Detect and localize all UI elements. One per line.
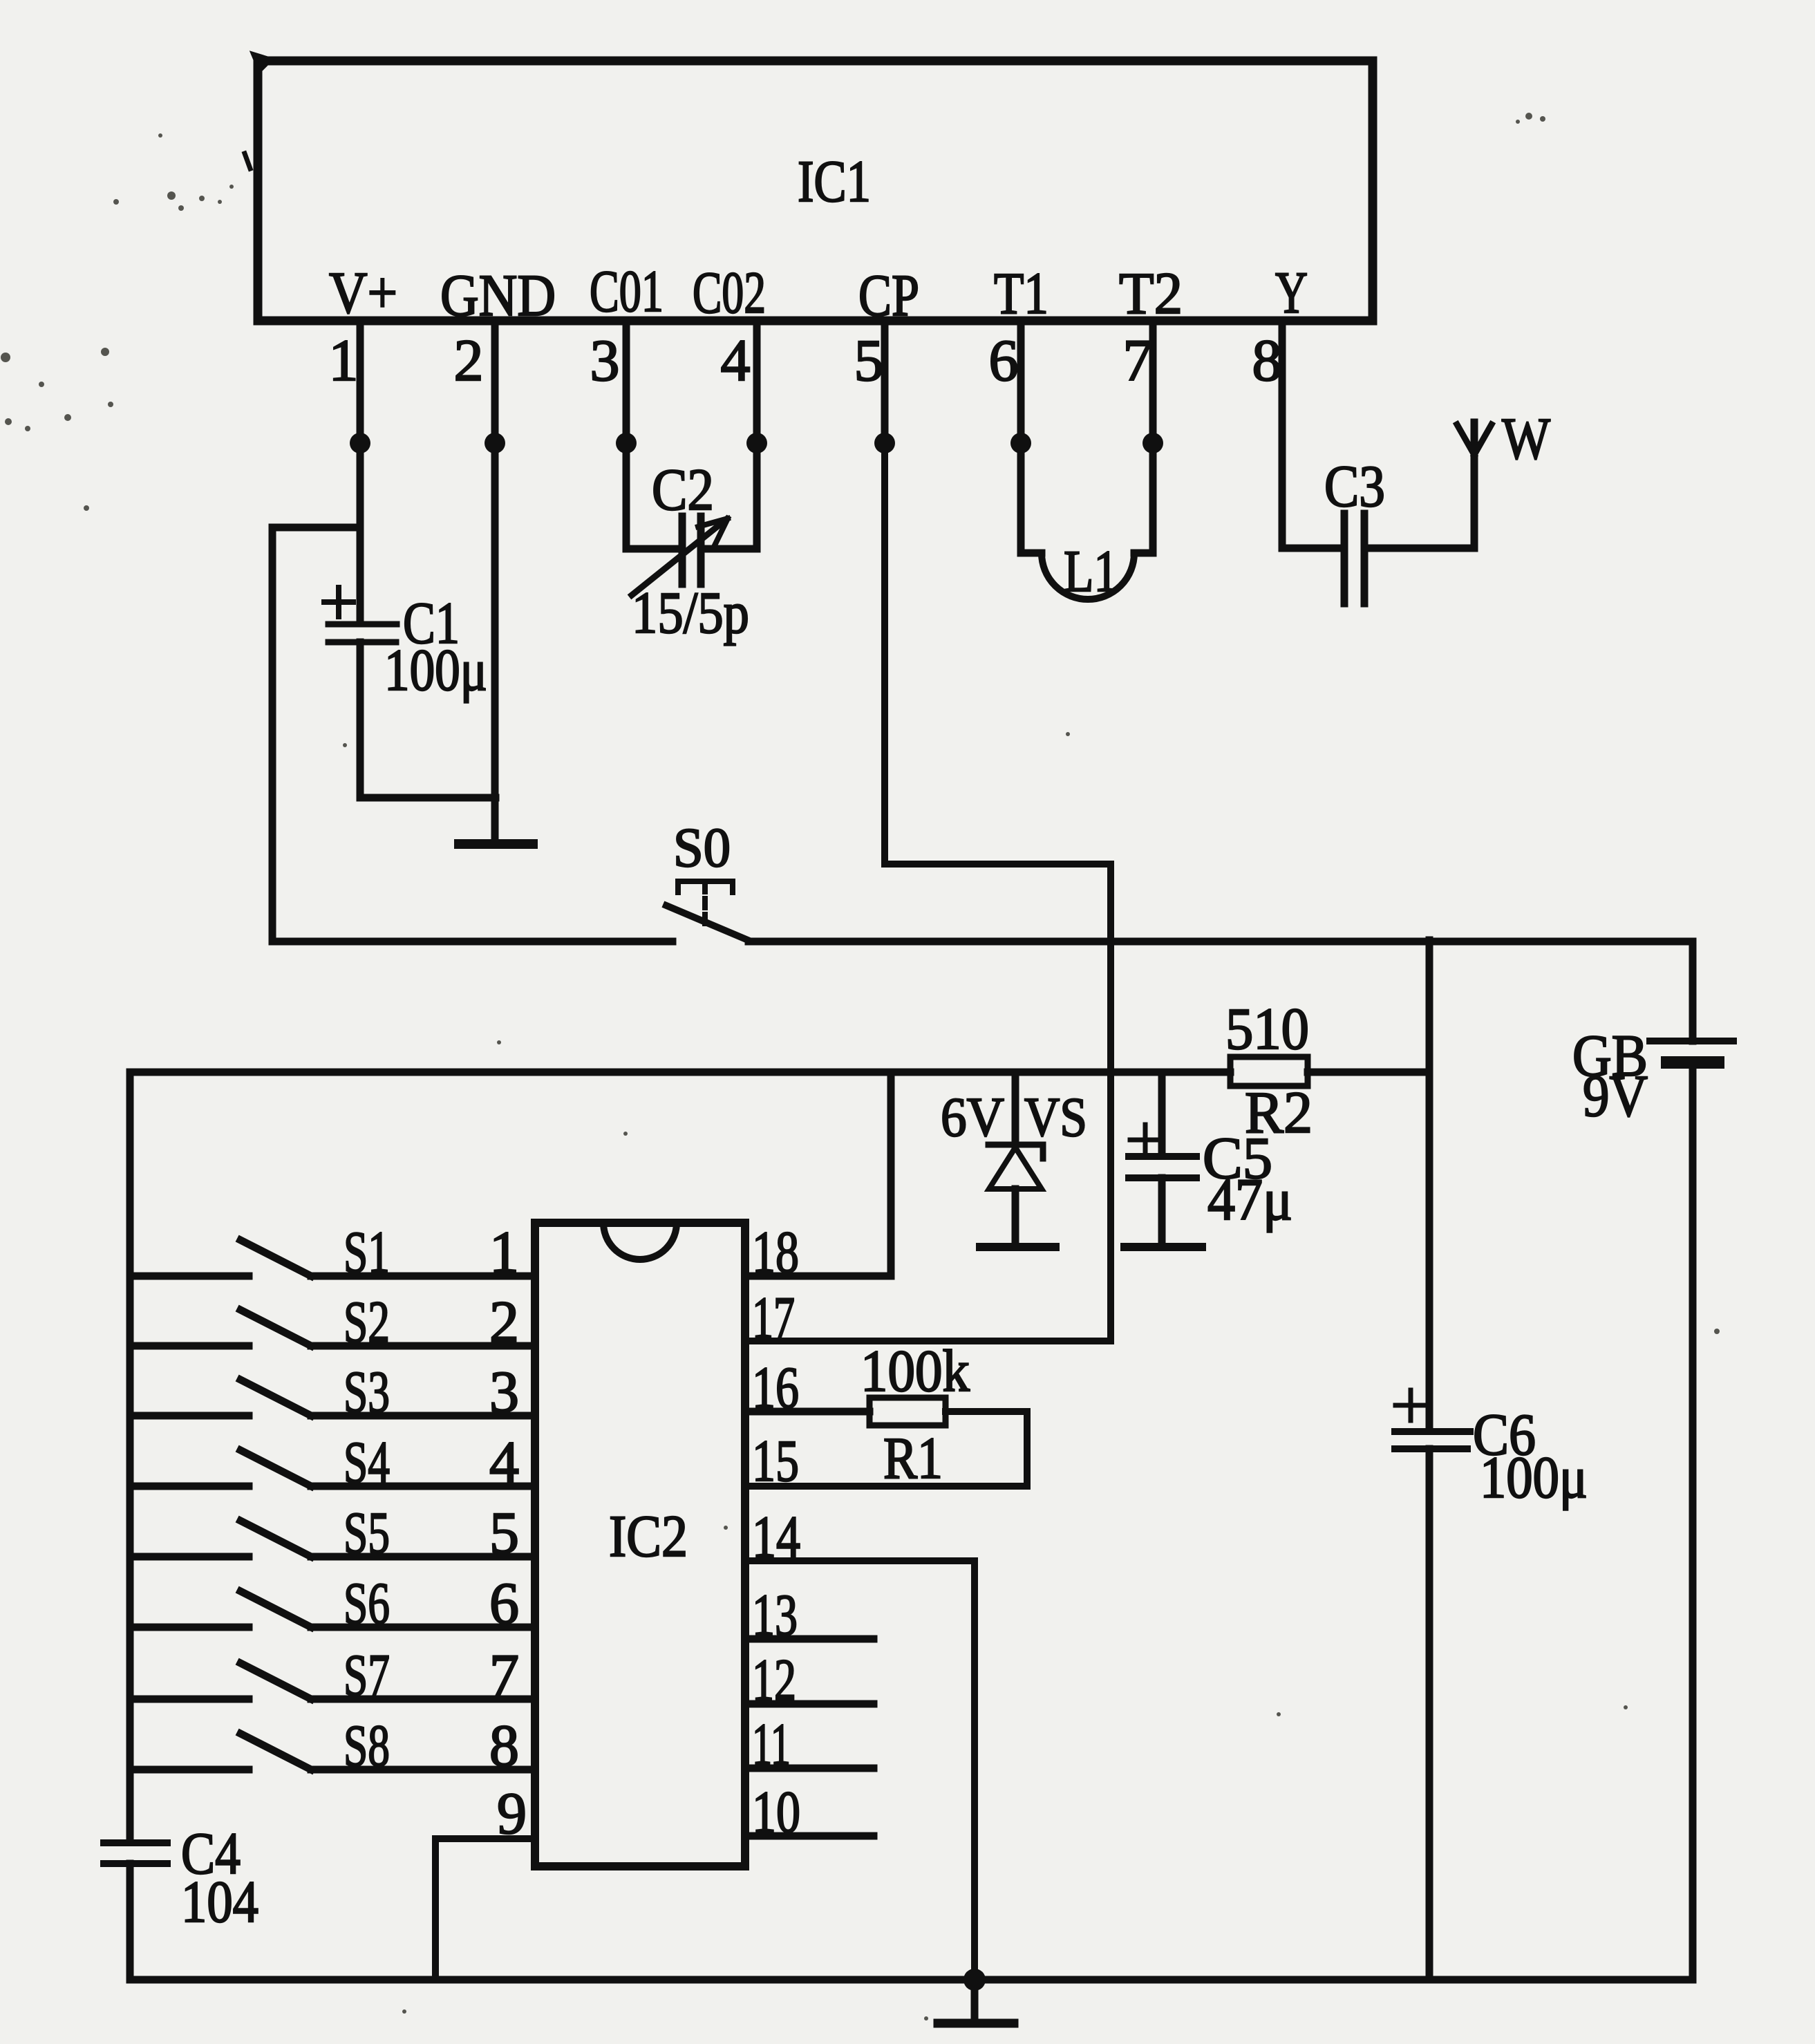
svg-text:S8: S8 [344,1712,390,1779]
svg-text:7: 7 [489,1642,519,1708]
svg-text:V+: V+ [329,259,397,326]
svg-text:5: 5 [854,327,884,393]
svg-text:S4: S4 [344,1429,390,1495]
svg-text:6: 6 [489,1570,519,1636]
svg-text:8: 8 [1252,327,1282,393]
svg-text:14: 14 [752,1503,800,1570]
svg-text:9V: 9V [1583,1062,1648,1129]
svg-text:VS: VS [1024,1086,1087,1148]
svg-text:100μ: 100μ [384,637,487,703]
svg-text:9: 9 [497,1780,527,1846]
svg-text:5: 5 [489,1499,519,1566]
svg-text:2: 2 [454,327,484,393]
svg-text:15/5p: 15/5p [632,579,749,646]
svg-text:CP: CP [858,262,919,328]
svg-text:R1: R1 [883,1425,943,1491]
svg-text:6V: 6V [941,1086,1004,1148]
svg-text:104: 104 [181,1868,258,1935]
svg-text:12: 12 [752,1647,796,1713]
svg-text:3: 3 [489,1358,519,1425]
svg-text:T2: T2 [1119,260,1183,326]
svg-text:GND: GND [440,262,556,328]
svg-text:C02: C02 [693,259,766,326]
svg-text:S7: S7 [344,1642,390,1708]
svg-text:IC1: IC1 [798,148,871,214]
svg-text:100k: 100k [861,1338,970,1404]
svg-text:8: 8 [489,1712,519,1779]
svg-text:Y: Y [1275,259,1308,326]
svg-text:C01: C01 [590,258,664,324]
svg-text:S2: S2 [344,1288,390,1355]
svg-text:17: 17 [752,1284,795,1351]
svg-text:13: 13 [752,1582,798,1648]
svg-text:4: 4 [489,1429,519,1495]
svg-text:6: 6 [989,327,1019,393]
svg-text:510: 510 [1225,995,1309,1062]
svg-text:IC2: IC2 [609,1503,688,1569]
svg-text:1: 1 [489,1219,519,1285]
svg-text:S6: S6 [344,1570,390,1636]
svg-text:4: 4 [721,327,751,393]
svg-text:1: 1 [329,327,359,393]
svg-text:10: 10 [752,1779,800,1845]
svg-text:C2: C2 [652,456,714,523]
svg-text:S0: S0 [673,818,731,879]
svg-text:S1: S1 [344,1219,390,1285]
svg-text:15: 15 [752,1427,799,1494]
svg-text:2: 2 [489,1288,519,1355]
svg-text:7: 7 [1123,327,1153,393]
svg-text:47μ: 47μ [1207,1166,1292,1232]
svg-text:T1: T1 [994,260,1048,326]
svg-text:L1: L1 [1064,538,1118,604]
svg-text:11: 11 [752,1711,791,1777]
svg-text:18: 18 [752,1219,799,1285]
svg-text:3: 3 [590,327,620,393]
svg-text:100μ: 100μ [1480,1444,1588,1510]
svg-text:S5: S5 [344,1499,390,1566]
svg-text:S3: S3 [344,1358,390,1425]
svg-text:C3: C3 [1324,453,1385,519]
svg-text:W: W [1502,405,1550,471]
svg-text:16: 16 [752,1354,799,1421]
